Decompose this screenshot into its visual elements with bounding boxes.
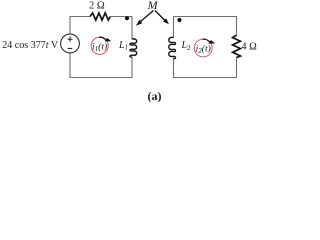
resistor R1 2Ω zigzag	[90, 13, 110, 20]
svg-text:i1(t): i1(t)	[92, 41, 107, 53]
current arrow i1 red circle	[91, 37, 108, 54]
voltage source plus sign	[68, 37, 73, 42]
wire: right loop bottom	[174, 77, 237, 79]
wire: left loop left side above source	[69, 16, 71, 34]
current arrow i1 arrowhead	[99, 37, 106, 40]
svg-text:2 Ω: 2 Ω	[89, 1, 105, 12]
svg-text:i2(t): i2(t)	[196, 44, 211, 56]
wire: right loop top	[174, 16, 237, 18]
mutual coupling arrow right	[155, 11, 165, 21]
current arrow i2 red circle	[194, 39, 212, 57]
wire: right loop left side below L2	[173, 58, 175, 78]
wire: left loop top-left lead	[70, 16, 90, 18]
dot node right (L2 top)	[177, 18, 181, 22]
current arrow i2 arrowhead	[202, 39, 209, 42]
dot node left (L1 top)	[125, 16, 129, 20]
svg-text:4 Ω: 4 Ω	[241, 41, 257, 52]
wire: left loop top-right lead	[110, 16, 132, 18]
mutual coupling arrow left	[141, 11, 154, 22]
svg-text:24 cos 377t V: 24 cos 377t V	[2, 39, 58, 51]
svg-text:M: M	[147, 0, 159, 12]
wire: left loop right side above L1	[131, 16, 133, 39]
wire: left loop bottom	[70, 77, 132, 79]
wire: left loop right side below L1	[131, 57, 133, 78]
wire: right loop left side above L2	[173, 16, 175, 38]
svg-text:(a): (a)	[148, 89, 162, 102]
svg-text:L1: L1	[118, 40, 128, 52]
voltage source V1 circle	[61, 34, 80, 53]
svg-text:L2: L2	[181, 40, 192, 52]
inductor L2 coil	[169, 37, 176, 58]
wire: right loop right side above R2	[236, 16, 238, 35]
resistor R2 4Ω zigzag	[233, 35, 241, 57]
voltage source minus sign	[68, 47, 73, 49]
inductor L1 coil	[130, 39, 137, 57]
wire: right loop right side below R2	[236, 57, 238, 78]
wire: left loop left side below source	[69, 53, 71, 78]
